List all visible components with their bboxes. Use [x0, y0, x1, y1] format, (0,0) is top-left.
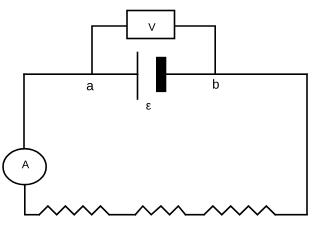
wire bottom right flat segment [275, 214, 307, 216]
wire V right lead (from voltmeter down to node b) [175, 26, 216, 74]
ammeter A circle [3, 149, 46, 185]
wire right vertical (node b row down to bottom) [306, 74, 308, 215]
voltmeter label V [148, 23, 155, 31]
node a label [87, 83, 94, 90]
resistor R zigzag group 2 [135, 206, 185, 215]
resistor R zigzag group 1 [39, 206, 109, 215]
node b label [213, 79, 219, 89]
resistor R zigzag group 3 [204, 206, 275, 215]
wire V left lead (from node a up to voltmeter) [92, 26, 127, 74]
wire bottom left flat segment [25, 214, 39, 216]
ammeter label A [22, 161, 29, 169]
voltmeter V box [127, 11, 175, 39]
battery emf label epsilon [146, 103, 151, 110]
wire main horizontal right segment (battery negative plate to right corner) [166, 73, 307, 75]
battery negative plate (thick bar) [156, 57, 166, 92]
wire bottom flat segment between resistor groups 1 and 2 [109, 214, 135, 216]
wire main horizontal left segment (left corner to battery positive plate) [24, 73, 138, 75]
battery positive plate (thin long line) [137, 53, 139, 100]
wire left vertical lower (ammeter to bottom wire) [24, 185, 26, 215]
wire left vertical upper (corner down to ammeter) [23, 74, 25, 149]
wire bottom flat segment between resistor groups 2 and 3 [186, 214, 205, 216]
